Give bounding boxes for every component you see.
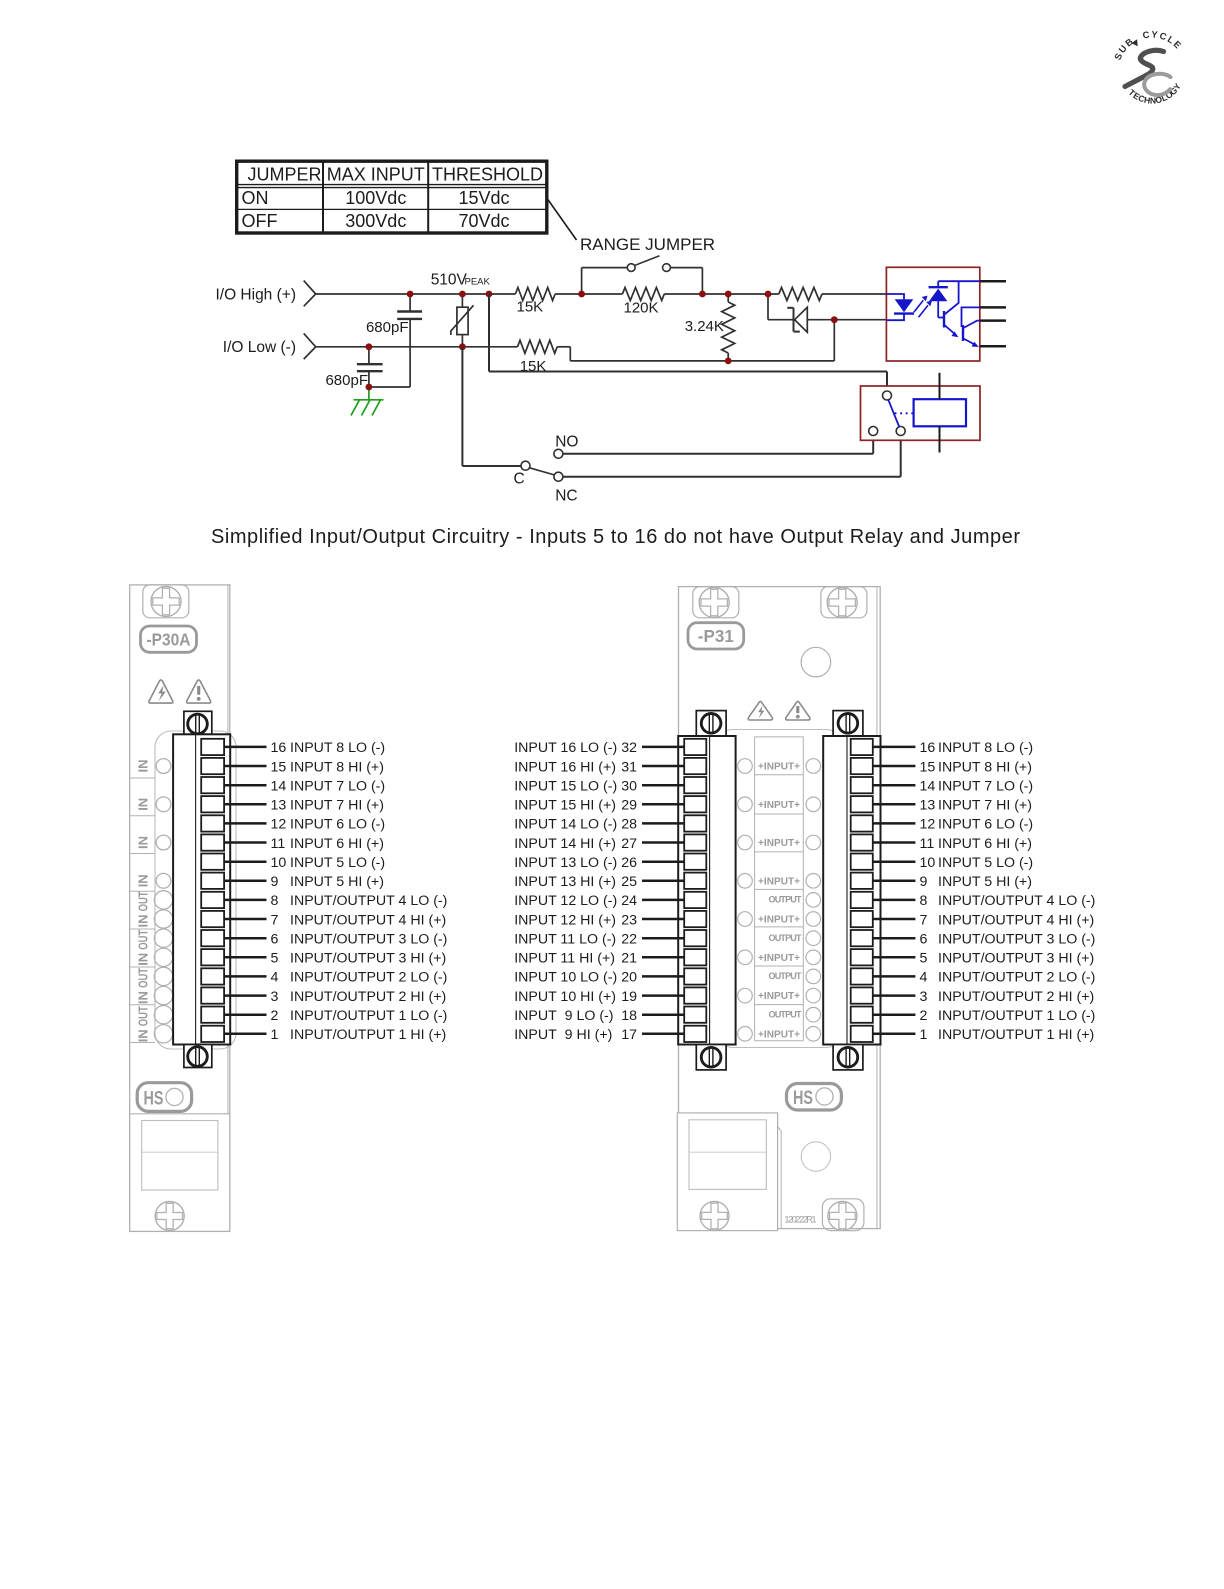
opto light arrows [914,296,932,318]
svg-text:+INPUT+: +INPUT+ [758,876,800,887]
svg-text:INPUT 6 LO (-): INPUT 6 LO (-) [938,817,1033,833]
svg-text:16: 16 [920,740,936,756]
terminal 3 (P31 right) [851,987,916,1003]
jumper configuration table [237,161,547,233]
relay actuator dotted link [895,412,914,414]
svg-text:I/O High (+): I/O High (+) [215,287,296,304]
svg-text:INPUT/OUTPUT 2 HI (+): INPUT/OUTPUT 2 HI (+) [938,989,1094,1005]
svg-text:22: 22 [621,932,637,948]
svg-text:21: 21 [621,951,637,967]
svg-text:OUTPUT: OUTPUT [769,933,803,943]
junction node 3.24K top [725,291,732,298]
chassis ground (green) [351,388,384,416]
svg-text:INPUT 10 HI (+): INPUT 10 HI (+) [514,989,616,1005]
svg-text:INPUT 6 LO (-): INPUT 6 LO (-) [290,817,385,833]
svg-text:IN: IN [137,991,151,1004]
svg-text:NO: NO [555,434,578,451]
terminal 14 (P31 right) [851,777,916,793]
svg-text:15: 15 [271,759,287,775]
junction node C1/high [407,291,414,298]
junction node zener tap [765,291,772,298]
wire relay common (from high rail) [489,294,887,391]
terminal 11 (P31 right) [851,834,916,850]
contact NO [554,434,579,459]
junction node zener anode [831,316,838,323]
svg-text:INPUT 11 LO (-): INPUT 11 LO (-) [514,932,616,948]
svg-text:INPUT 5 HI (+): INPUT 5 HI (+) [290,874,384,890]
terminal block right (P31) [823,711,880,1070]
svg-text:ON: ON [242,188,269,208]
relay contact NO [869,427,878,436]
svg-text:24: 24 [621,893,637,909]
svg-text:INPUT/OUTPUT 2 LO (-): INPUT/OUTPUT 2 LO (-) [290,970,447,986]
junction node varistor/high [459,291,466,298]
contact C [514,461,531,487]
terminal 4 (P31 right) [851,968,916,984]
bottom label box (P30A) [142,1121,218,1191]
terminal 6 (P30A) [201,930,266,946]
svg-text:HS: HS [793,1088,813,1109]
svg-text:INPUT 7 LO (-): INPUT 7 LO (-) [938,779,1033,795]
terminal 24 (P31 left) [642,892,706,908]
svg-text:7: 7 [271,912,279,928]
svg-text:OUT: OUT [137,891,151,911]
svg-text:100Vdc: 100Vdc [345,188,406,208]
wire I/O High rail [316,293,887,295]
svg-text:INPUT/OUTPUT 4 LO (-): INPUT/OUTPUT 4 LO (-) [938,893,1095,909]
svg-text:4: 4 [271,970,279,986]
resistor 3.24K [685,294,735,361]
svg-text:HS: HS [144,1088,164,1109]
terminal 2 (P31 right) [851,1007,916,1023]
terminal 5 (P31 right) [851,949,916,965]
svg-text:OUT: OUT [137,1006,151,1026]
svg-text:INPUT 12 HI (+): INPUT 12 HI (+) [514,912,616,928]
svg-text:IN: IN [137,798,151,811]
terminal 14 (P30A) [201,777,266,793]
company logo: Sub Cycle Technology [1113,29,1184,105]
svg-text:27: 27 [621,836,637,852]
svg-text:IN: IN [137,915,151,928]
warning icon lightning (P31) [748,701,772,720]
terminal 16 (P30A) [201,739,266,755]
terminal 13 (P30A) [201,796,266,812]
terminal 6 (P31 right) [851,930,916,946]
svg-text:INPUT 7 LO (-): INPUT 7 LO (-) [290,779,385,795]
svg-text:OUT: OUT [137,968,151,988]
relay contact common [883,391,892,400]
svg-text:INPUT/OUTPUT 1 LO (-): INPUT/OUTPUT 1 LO (-) [290,1008,447,1024]
terminal 27 (P31 left) [642,834,706,850]
svg-text:30: 30 [621,779,637,795]
bottom screw left (P31) [700,1201,729,1230]
junction node jumper left [578,291,585,298]
svg-text:18: 18 [621,1008,637,1024]
terminal 9 (P30A) [201,873,266,889]
leader line from table to RANGE JUMPER label [548,199,577,240]
terminal 10 (P30A) [201,854,266,870]
svg-text:INPUT 14 HI (+): INPUT 14 HI (+) [514,836,616,852]
svg-text:300Vdc: 300Vdc [345,211,406,231]
junction node varistor/low [459,343,466,350]
svg-text:INPUT 11 HI (+): INPUT 11 HI (+) [514,951,615,967]
svg-text:INPUT 15 HI (+): INPUT 15 HI (+) [514,798,616,814]
terminal 7 (P31 right) [851,911,916,927]
svg-text:3: 3 [920,989,928,1005]
svg-text:13: 13 [271,798,287,814]
svg-text:6: 6 [920,932,928,948]
relay blade [888,400,899,427]
svg-text:120222R1: 120222R1 [785,1215,817,1225]
opto transistor Q1 [938,281,958,337]
svg-text:20: 20 [621,970,637,986]
svg-text:70Vdc: 70Vdc [458,211,509,231]
terminal labels (P31 left) [514,740,637,1043]
junction node C2/low [366,343,373,350]
wire NC to relay [563,436,901,477]
svg-text:6: 6 [271,932,279,948]
svg-text:14: 14 [271,779,287,795]
terminal 13 (P31 right) [851,796,916,812]
bottom screw (P30A) [155,1202,184,1231]
svg-text:INPUT 5 LO (-): INPUT 5 LO (-) [290,855,385,871]
svg-text:THRESHOLD: THRESHOLD [432,165,543,185]
relay contact NC [896,427,905,436]
svg-text:10: 10 [920,855,936,871]
svg-text:+INPUT+: +INPUT+ [758,762,800,773]
terminal 23 (P31 left) [642,911,706,927]
svg-text:INPUT 6 HI (+): INPUT 6 HI (+) [290,836,384,852]
varistor 510Vpeak [431,272,491,347]
warning icon lightning (P30A) [149,680,173,703]
svg-text:INPUT/OUTPUT 4 LO (-): INPUT/OUTPUT 4 LO (-) [290,893,447,909]
svg-text:10: 10 [271,855,287,871]
svg-text:2: 2 [920,1008,928,1024]
svg-text:INPUT/OUTPUT 3 LO (-): INPUT/OUTPUT 3 LO (-) [938,932,1095,948]
svg-text:INPUT 8 HI (+): INPUT 8 HI (+) [938,759,1032,775]
opto output pins [980,281,1006,346]
terminal 9 (P31 right) [851,873,916,889]
terminal 8 (P30A) [201,892,266,908]
svg-text:INPUT/OUTPUT 1 HI (+): INPUT/OUTPUT 1 HI (+) [290,1027,446,1043]
terminal 10 (P31 right) [851,854,916,870]
svg-text:9: 9 [920,874,928,890]
svg-text:INPUT/OUTPUT 3 HI (+): INPUT/OUTPUT 3 HI (+) [290,951,446,967]
svg-text:9: 9 [271,874,279,890]
svg-text:29: 29 [621,798,637,814]
terminal 2 (P30A) [201,1007,266,1023]
svg-text:INPUT/OUTPUT 2 HI (+): INPUT/OUTPUT 2 HI (+) [290,989,446,1005]
svg-text:INPUT/OUTPUT 1 HI (+): INPUT/OUTPUT 1 HI (+) [938,1027,1094,1043]
relay coil [914,399,966,426]
svg-text:INPUT/OUTPUT 4 HI (+): INPUT/OUTPUT 4 HI (+) [938,912,1094,928]
terminal 31 (P31 left) [642,758,706,774]
svg-text:INPUT 10 LO (-): INPUT 10 LO (-) [514,970,617,986]
junction node chassis [366,384,373,391]
optocoupler U1 [886,267,979,361]
junction node jumper right [699,291,706,298]
terminal 7 (P30A) [201,911,266,927]
input connector I/O High (+) [215,281,315,307]
terminal 15 (P31 right) [851,758,916,774]
svg-text:120K: 120K [624,300,659,317]
warning icon exclamation (P30A) [187,680,211,703]
connector shroud outline (P31) [708,730,851,1048]
svg-text:PEAK: PEAK [465,277,491,288]
svg-text:+INPUT+: +INPUT+ [758,838,800,849]
panel -P31 body [679,587,881,1229]
svg-text:8: 8 [920,893,928,909]
svg-text:4: 4 [920,970,928,986]
svg-text:-P31: -P31 [698,626,734,646]
svg-text:OUT: OUT [137,929,151,949]
svg-text:+INPUT+: +INPUT+ [758,991,800,1002]
svg-text:12: 12 [271,817,287,833]
wire I/O Low rail [316,347,835,361]
svg-text:OUTPUT: OUTPUT [769,1009,803,1019]
HS label (P30A) [137,1083,191,1112]
svg-text:I/O Low (-): I/O Low (-) [223,339,296,356]
terminal 4 (P30A) [201,968,266,984]
terminal 22 (P31 left) [642,930,706,946]
svg-text:16: 16 [271,740,287,756]
svg-text:C: C [514,471,525,488]
zener TVS diode [768,294,886,361]
svg-text:INPUT 8 HI (+): INPUT 8 HI (+) [290,759,384,775]
hole circle bottom (P31) [801,1142,830,1171]
svg-text:3: 3 [271,989,279,1005]
svg-text:INPUT 14 LO (-): INPUT 14 LO (-) [514,817,617,833]
terminal 16 (P31 right) [851,739,916,755]
terminal 29 (P31 left) [642,796,706,812]
connector shroud outline (P30A) [155,731,236,1049]
label -P30A [141,626,197,652]
terminal 11 (P30A) [201,834,266,850]
svg-text:2: 2 [271,1008,279,1024]
svg-text:INPUT/OUTPUT 3 HI (+): INPUT/OUTPUT 3 HI (+) [938,951,1094,967]
svg-text:INPUT 5 LO (-): INPUT 5 LO (-) [938,855,1033,871]
resistor 120K [622,288,664,317]
contact NC [554,472,578,504]
svg-text:31: 31 [621,759,637,775]
svg-text:680pF: 680pF [366,319,409,336]
panel -P31 top screw left [693,587,739,618]
terminal 25 (P31 left) [642,873,706,889]
svg-text:INPUT/OUTPUT 4 HI (+): INPUT/OUTPUT 4 HI (+) [290,912,446,928]
svg-text:28: 28 [621,817,637,833]
svg-text:INPUT 12 LO (-): INPUT 12 LO (-) [514,893,617,909]
terminal 26 (P31 left) [642,854,706,870]
svg-text:15Vdc: 15Vdc [458,188,509,208]
svg-text:IN: IN [137,760,151,773]
svg-text:INPUT 7 HI (+): INPUT 7 HI (+) [290,798,384,814]
svg-text:IN: IN [137,1029,151,1042]
svg-text:INPUT 8 LO (-): INPUT 8 LO (-) [938,740,1033,756]
terminal 15 (P30A) [201,758,266,774]
svg-text:RANGE JUMPER: RANGE JUMPER [580,235,715,254]
svg-text:INPUT 5 HI (+): INPUT 5 HI (+) [938,874,1032,890]
svg-text:INPUT/OUTPUT 1 LO (-): INPUT/OUTPUT 1 LO (-) [938,1008,1095,1024]
svg-text:3.24K: 3.24K [685,318,724,335]
svg-text:INPUT 15 LO (-): INPUT 15 LO (-) [514,779,617,795]
svg-text:1: 1 [920,1027,928,1043]
terminal block left (P31) [678,711,735,1070]
switch blade C-NC [530,468,555,475]
terminal 12 (P31 right) [851,815,916,831]
svg-text:IN: IN [137,874,151,887]
terminal 30 (P31 left) [642,777,706,793]
LED indicators (P30A) [154,759,172,1043]
panel -P31 top screw right [821,587,867,618]
bottom screw right (P31) [822,1199,864,1231]
terminal labels (P30A) [271,740,448,1043]
series resistor (unlabeled) [779,288,822,301]
svg-text:23: 23 [621,912,637,928]
svg-text:25: 25 [621,874,637,890]
svg-text:INPUT 6 HI (+): INPUT 6 HI (+) [938,836,1032,852]
svg-text:INPUT 7 HI (+): INPUT 7 HI (+) [938,798,1032,814]
IN/OUT legend strip (P30A) [130,760,155,1043]
terminal 1 (P31 right) [851,1026,916,1042]
resistor 15K (high side) [515,288,555,316]
terminal 5 (P30A) [201,949,266,965]
svg-text:19: 19 [621,989,637,1005]
svg-text:7: 7 [920,912,928,928]
terminal 17 (P31 left) [642,1026,706,1042]
hole circle (P31) [801,647,831,677]
svg-text:17: 17 [621,1027,637,1043]
svg-text:INPUT/OUTPUT 2 LO (-): INPUT/OUTPUT 2 LO (-) [938,970,1095,986]
terminal 28 (P31 left) [642,815,706,831]
opto transistor Q2 [962,307,980,347]
svg-text:INPUT 9 LO (-): INPUT 9 LO (-) [514,1008,613,1024]
terminal labels (P31 right) [920,740,1096,1043]
capacitor C2 680pF (low to chassis) [325,347,382,389]
svg-text:IN: IN [137,836,151,849]
opto LED [886,294,914,320]
center legend column (P31) [738,737,821,1041]
svg-text:INPUT 16 HI (+): INPUT 16 HI (+) [514,759,616,775]
panel -P30A top screw [143,585,189,618]
terminal 12 (P30A) [201,815,266,831]
range jumper switch [582,256,703,294]
svg-text:11: 11 [920,836,935,852]
panel -P30A section divider [130,1113,230,1115]
svg-text:-P30A: -P30A [147,630,191,650]
junction node relay tap [486,291,493,298]
svg-text:INPUT 13 HI (+): INPUT 13 HI (+) [514,874,616,890]
terminal 21 (P31 left) [642,949,706,965]
svg-text:INPUT 13 LO (-): INPUT 13 LO (-) [514,855,617,871]
svg-text:+INPUT+: +INPUT+ [758,915,800,926]
svg-text:JUMPER: JUMPER [248,165,322,185]
relay K1 [861,386,981,440]
HS label (P31) [787,1084,842,1111]
svg-text:1: 1 [271,1027,279,1043]
panel -P30A body [130,585,230,1232]
svg-text:12: 12 [920,817,936,833]
terminal 8 (P31 right) [851,892,916,908]
junction node 3.24K bottom [725,358,732,365]
svg-text:INPUT 9 HI (+): INPUT 9 HI (+) [514,1027,612,1043]
label -P31 [688,623,744,649]
svg-text:8: 8 [271,893,279,909]
resistor 15K (low side) [518,340,558,375]
svg-text:15: 15 [920,759,936,775]
svg-text:510V: 510V [431,272,468,289]
svg-text:5: 5 [920,951,928,967]
capacitor C1 680pF (high to chassis) [366,294,422,387]
terminal 1 (P30A) [201,1026,266,1042]
svg-text:15K: 15K [517,299,544,316]
svg-text:11: 11 [271,836,286,852]
svg-text:INPUT 8 LO (-): INPUT 8 LO (-) [290,740,385,756]
terminal 3 (P30A) [201,987,266,1003]
warning icon exclamation (P31) [786,701,810,720]
panel -P30A inner edge line [227,585,229,1114]
svg-text:NC: NC [555,488,577,505]
svg-text:+INPUT+: +INPUT+ [758,1029,800,1040]
svg-text:680pF: 680pF [325,372,368,389]
terminal 20 (P31 left) [642,968,706,984]
terminal 32 (P31 left) [642,739,706,755]
svg-text:OUTPUT: OUTPUT [769,971,803,981]
svg-text:13: 13 [920,798,936,814]
terminal block (P30A) [173,711,230,1067]
svg-text:26: 26 [621,855,637,871]
relay armature line [939,373,941,453]
svg-text:INPUT/OUTPUT 3 LO (-): INPUT/OUTPUT 3 LO (-) [290,932,447,948]
svg-text:INPUT 16 LO (-): INPUT 16 LO (-) [514,740,617,756]
terminal 19 (P31 left) [642,987,706,1003]
svg-text:5: 5 [271,951,279,967]
terminal 18 (P31 left) [642,1007,706,1023]
bottom sub-module (P31) [677,1113,781,1231]
opto photodiode [929,281,980,317]
svg-text:32: 32 [621,740,637,756]
svg-text:OUTPUT: OUTPUT [769,895,803,905]
svg-text:+INPUT+: +INPUT+ [758,953,800,964]
wire NO to relay [563,436,873,454]
svg-text:OFF: OFF [242,211,278,231]
wire to C contact (from varistor/low node) [462,347,521,466]
svg-text:Simplified Input/Output Circui: Simplified Input/Output Circuitry - Inpu… [211,526,1020,548]
svg-text:+INPUT+: +INPUT+ [758,800,800,811]
svg-text:IN: IN [137,953,151,966]
svg-text:14: 14 [920,779,936,795]
input connector I/O Low (-) [223,333,316,359]
svg-text:MAX INPUT: MAX INPUT [327,165,425,185]
